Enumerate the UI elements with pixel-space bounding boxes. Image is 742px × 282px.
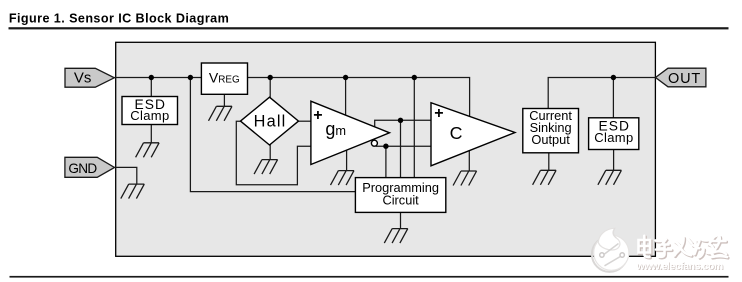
programming circuit box (355, 178, 445, 213)
svg-text:www.elecfans.com: www.elecfans.com (636, 261, 723, 273)
ESD clamp left box (122, 97, 178, 125)
wire: OUT net (548, 78, 655, 111)
wire: ESD clamp right ground stem (613, 149, 615, 171)
wire: Vs supply rail (114, 78, 469, 121)
wire: programming circuit ground stem (400, 211, 402, 229)
svg-text:GND: GND (68, 161, 97, 176)
junction on rail at ESD clamp (149, 75, 154, 80)
junction on rail at programming feed (188, 75, 193, 80)
wire: GND lead (115, 167, 137, 184)
wire: gm output to C + input (375, 120, 432, 129)
svg-text:Clamp: Clamp (594, 130, 633, 145)
ground (VREG) (209, 106, 233, 121)
ground (gm amp) (331, 171, 355, 186)
wire: drop to programming circuit (413, 78, 415, 181)
watermark text 电子发烧友 (639, 236, 728, 257)
wire: C - node to programming circuit (385, 146, 387, 180)
wire: C + node to programming circuit (400, 120, 402, 180)
svg-text:+: + (434, 105, 443, 122)
ground (current sinking output) (533, 170, 557, 185)
regulator VREG (201, 63, 247, 94)
ground (GND pin) (121, 184, 145, 199)
Hall plate (241, 97, 299, 145)
junction on OUT net (611, 75, 616, 80)
OUT pin (656, 68, 706, 87)
IC body outline (116, 42, 656, 256)
watermark logo (592, 228, 629, 272)
wire: gm inverted output to C - input (376, 145, 432, 147)
current sinking output box (523, 108, 579, 153)
wire: OUT net drop to ESD clamp right (612, 78, 614, 120)
wire: current sinking output ground stem (548, 152, 550, 171)
op-amp gm (311, 101, 390, 164)
wire: drop to Hall plate (269, 78, 271, 103)
wire: Hall ground stem (269, 140, 271, 160)
junction gm output node (398, 118, 403, 123)
svg-text:Output: Output (531, 132, 570, 147)
ground (ESD clamp right) (598, 170, 622, 185)
junction on rail at gm (343, 75, 348, 80)
junction gm inverted output node (383, 144, 388, 149)
wire: C amp ground stem (468, 150, 470, 171)
ground (programming circuit) (384, 229, 408, 244)
ground (ESD clamp left) (136, 143, 160, 158)
op-amp C (431, 103, 515, 166)
wire: rail drop to programming circuit feed (190, 78, 358, 192)
svg-text:Vs: Vs (74, 70, 92, 87)
bottom rule (10, 276, 729, 278)
svg-text:Clamp: Clamp (130, 108, 169, 123)
wire: VREG ground stem (223, 93, 225, 106)
svg-text:OUT: OUT (668, 71, 701, 87)
wire: drop to gm amp (345, 78, 347, 119)
junction on rail at programming circuit (412, 75, 417, 80)
gm inverted output bubble (371, 140, 377, 146)
svg-text:Figure 1. Sensor IC Block Diag: Figure 1. Sensor IC Block Diagram (9, 11, 229, 25)
Vs pin (65, 68, 114, 87)
wire: gm ground stem (346, 149, 348, 171)
wire: drop to ESD clamp left (150, 78, 152, 100)
ground (C amp) (453, 171, 477, 186)
wire: Hall to gm + input (296, 120, 312, 122)
wire: ESD clamp left ground stem (150, 123, 152, 143)
junction on rail at Hall (268, 75, 273, 80)
GND pin (65, 157, 115, 177)
ground (Hall plate) (254, 160, 277, 175)
svg-text:Circuit: Circuit (382, 193, 419, 208)
svg-text:C: C (450, 123, 463, 143)
svg-text:+: + (313, 107, 322, 124)
title rule (9, 27, 729, 29)
svg-text:Hall: Hall (254, 113, 287, 131)
ESD clamp right box (589, 118, 639, 150)
wire: Hall left terminal loop to gm lower input (236, 121, 311, 185)
watermark text (shadow) (640, 237, 729, 258)
